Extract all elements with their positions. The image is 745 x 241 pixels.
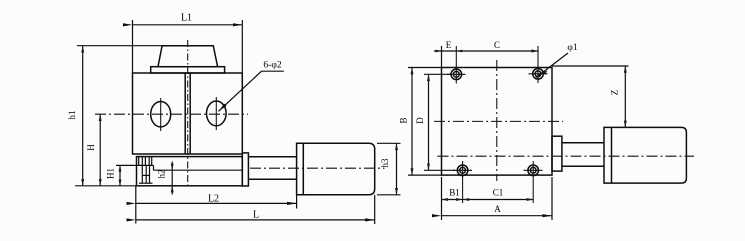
svg-text:L1: L1 — [181, 13, 192, 24]
dimension h2 — [171, 162, 173, 195]
plate right lower extension — [551, 177, 553, 220]
dimension E and C line — [434, 50, 538, 52]
hole bottom-right — [528, 165, 539, 176]
dimension B1 C1 line — [442, 199, 534, 201]
flange between base and shaft — [242, 153, 248, 186]
dimension L2 — [136, 202, 297, 204]
svg-text:h1: h1 — [67, 111, 77, 120]
dimension H1 — [119, 165, 121, 185]
svg-text:B1: B1 — [449, 188, 460, 198]
coil flange line — [302, 143, 304, 195]
mounting plate — [442, 68, 553, 176]
right shaft — [562, 142, 604, 144]
svg-text:L: L — [253, 210, 259, 221]
svg-text:C1: C1 — [493, 188, 504, 198]
dimension L1 line — [133, 24, 243, 26]
right port ellipse — [207, 101, 227, 126]
body rectangle — [133, 73, 243, 154]
base block — [137, 157, 243, 186]
dimension D — [424, 73, 450, 75]
coil block right view — [604, 127, 686, 183]
knob top extension (h1 reference) — [77, 45, 162, 47]
right port vertical crosshair — [215, 97, 217, 130]
svg-text:A: A — [494, 204, 501, 214]
svg-text:Z: Z — [610, 90, 620, 96]
plate left lower extension — [441, 177, 443, 220]
boss top line / H1 extension — [116, 164, 154, 166]
knob trapezoid — [158, 46, 218, 67]
svg-text:E: E — [446, 40, 452, 50]
hole top-left — [451, 69, 462, 80]
svg-text:φ1: φ1 — [567, 43, 577, 53]
dimension h3 — [377, 142, 401, 144]
svg-text:L2: L2 — [208, 194, 219, 205]
seat line — [154, 169, 243, 171]
dimension Z extension — [552, 65, 629, 67]
bottom extension line — [75, 185, 137, 187]
coil flange line right view — [611, 127, 613, 183]
horizontal centreline through ports — [95, 113, 248, 115]
knob flange plate — [151, 67, 225, 73]
hole top-right — [533, 69, 544, 80]
svg-text:C: C — [494, 40, 500, 50]
plate top-left corner extension — [441, 46, 443, 68]
stub lines upper — [138, 157, 140, 166]
plate horizontal centreline — [434, 120, 563, 122]
svg-text:D: D — [415, 117, 425, 124]
svg-text:H1: H1 — [106, 168, 116, 179]
leader 6-phi2 — [262, 70, 284, 72]
svg-text:H: H — [86, 144, 96, 151]
dimension L — [136, 219, 375, 221]
dimension L2 extensions — [135, 186, 137, 224]
svg-text:h2: h2 — [157, 170, 167, 179]
body centre split lines — [184, 73, 186, 154]
coil centreline right view — [438, 155, 695, 157]
svg-text:B: B — [399, 117, 409, 123]
dimension B — [408, 67, 442, 69]
dimension L extension — [374, 195, 376, 224]
lower fitting — [141, 165, 143, 183]
dimension Z — [624, 66, 626, 127]
shaft top — [248, 156, 296, 158]
right flange piece — [552, 136, 562, 171]
shaft bottom — [248, 178, 296, 180]
shaft centreline — [250, 167, 385, 169]
vertical centreline — [187, 40, 189, 186]
svg-text:h3: h3 — [380, 158, 390, 168]
svg-text:6-φ2: 6-φ2 — [263, 61, 281, 71]
dimension H — [99, 114, 101, 186]
dimension h1 — [82, 46, 84, 186]
dimension L1 extension lines — [132, 20, 134, 73]
left port vertical crosshair — [160, 98, 162, 131]
left port ellipse — [151, 102, 171, 127]
plate vertical centreline — [496, 60, 498, 181]
hole bottom-left — [457, 165, 468, 176]
coil block left view — [297, 143, 375, 195]
dimension A — [442, 215, 553, 217]
